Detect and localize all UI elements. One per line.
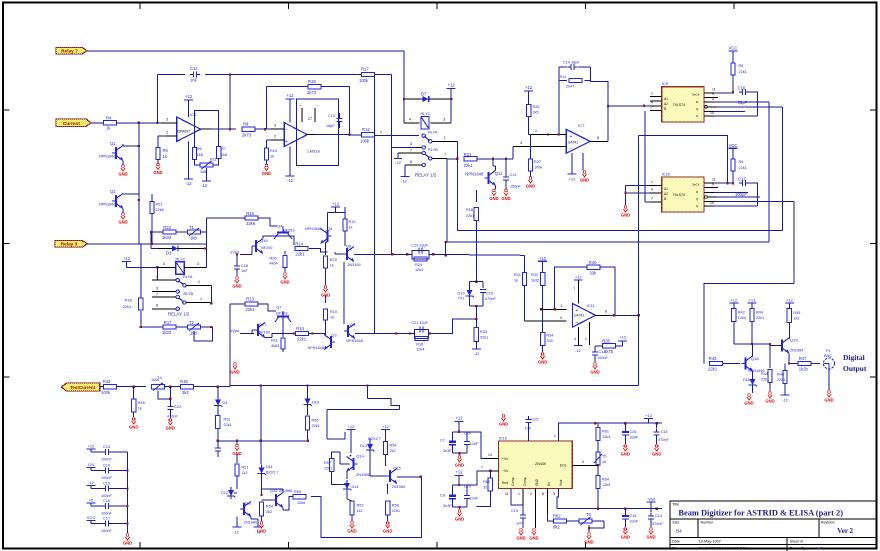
zener D10 cap C15 pair bbox=[458, 282, 497, 307]
power -Vad bbox=[647, 497, 663, 509]
wire relay2 out loop bbox=[194, 326, 213, 341]
svg-text:−: − bbox=[285, 127, 288, 133]
op-amp IC6 bbox=[284, 123, 320, 154]
offset pins lm318 bbox=[299, 104, 319, 122]
svg-text:GND: GND bbox=[824, 398, 833, 403]
resistor R23 bbox=[323, 242, 336, 285]
svg-text:6: 6 bbox=[156, 304, 158, 308]
switch RLYB 2 bbox=[152, 286, 194, 304]
svg-text:4: 4 bbox=[560, 316, 562, 320]
relay coil RLYC 2 bbox=[176, 257, 186, 274]
svg-text:1k: 1k bbox=[330, 264, 334, 268]
svg-text:+12: +12 bbox=[185, 94, 193, 99]
svg-text:UA741: UA741 bbox=[568, 141, 578, 145]
IC U12 ZN439 bbox=[499, 435, 573, 488]
resistor R44 bbox=[750, 309, 764, 346]
ground R27 bbox=[526, 171, 535, 189]
resistor R4 bbox=[104, 116, 117, 131]
wire cluster2 out bbox=[433, 318, 478, 334]
capacitor C16 bbox=[738, 86, 750, 106]
svg-text:UA741: UA741 bbox=[574, 314, 584, 318]
svg-text:C18: C18 bbox=[630, 514, 637, 518]
svg-text:D3: D3 bbox=[166, 250, 172, 255]
branch x367 bbox=[367, 386, 369, 399]
svg-text:R61: R61 bbox=[602, 430, 609, 434]
zener D14 bbox=[343, 472, 358, 493]
svg-text:GND: GND bbox=[765, 399, 774, 404]
svg-text:22k6: 22k6 bbox=[156, 208, 164, 212]
zener D15 bbox=[743, 371, 757, 393]
svg-text:Vout: Vout bbox=[559, 480, 563, 486]
svg-text:VCC: VCC bbox=[729, 143, 738, 148]
svg-text:100pF: 100pF bbox=[735, 192, 747, 197]
svg-text:22k1: 22k1 bbox=[761, 378, 769, 382]
IC U10 74LS74 bbox=[662, 171, 708, 212]
svg-text:2k73: 2k73 bbox=[242, 133, 252, 138]
svg-text:12k4: 12k4 bbox=[602, 435, 610, 439]
svg-text:IC7: IC7 bbox=[578, 123, 585, 128]
label Digital Output bbox=[843, 353, 867, 373]
wire group2 to pin2 bbox=[467, 466, 498, 486]
power VCC ic10 bbox=[729, 143, 738, 159]
wire C16 right bbox=[749, 92, 758, 116]
svg-text:B: B bbox=[664, 197, 666, 201]
capacitor C14 bank bbox=[87, 462, 128, 480]
svg-text:100k: 100k bbox=[101, 390, 111, 395]
svg-text:TestCurrent: TestCurrent bbox=[70, 385, 96, 390]
svg-text:1k2: 1k2 bbox=[357, 509, 363, 513]
svg-text:+: + bbox=[576, 308, 579, 314]
svg-text:C22: C22 bbox=[174, 405, 181, 409]
svg-text:6: 6 bbox=[410, 160, 412, 164]
svg-text:2k47: 2k47 bbox=[566, 85, 574, 89]
svg-text:RLYB: RLYB bbox=[428, 148, 438, 152]
wire q14 base bbox=[332, 452, 350, 464]
svg-text:GND: GND bbox=[584, 540, 593, 545]
svg-text:BF292: BF292 bbox=[261, 246, 272, 250]
svg-text:GND: GND bbox=[383, 529, 392, 534]
resistor R18b bbox=[123, 244, 144, 327]
svg-text:R45: R45 bbox=[138, 401, 145, 405]
svg-text:End: End bbox=[502, 481, 508, 485]
wire R15 feed bbox=[206, 218, 245, 232]
resistor R44b bbox=[761, 344, 772, 391]
ground c19b gnd pair bbox=[516, 529, 538, 541]
svg-text:P1: P1 bbox=[826, 349, 831, 353]
zener D13 bbox=[360, 437, 381, 453]
svg-text:+: + bbox=[285, 139, 288, 145]
svg-text:33nF: 33nF bbox=[630, 436, 639, 440]
ground adc top bbox=[499, 415, 508, 427]
transistor Q17 bbox=[254, 322, 270, 338]
connector BNC P1 bbox=[824, 349, 835, 369]
svg-text:3: 3 bbox=[553, 492, 555, 496]
svg-text:R44: R44 bbox=[756, 311, 763, 315]
svg-text:4: 4 bbox=[409, 118, 411, 122]
resistor R10 bbox=[264, 148, 277, 160]
svg-text:R16: R16 bbox=[466, 208, 473, 212]
svg-text:12k4: 12k4 bbox=[738, 316, 746, 320]
svg-text:GND: GND bbox=[580, 178, 589, 183]
svg-text:+12: +12 bbox=[575, 275, 583, 280]
resistor R21 bbox=[464, 152, 477, 168]
svg-text:1: 1 bbox=[518, 492, 520, 496]
svg-text:1nF: 1nF bbox=[190, 78, 198, 83]
svg-text:2k5: 2k5 bbox=[533, 111, 539, 115]
svg-text:R26: R26 bbox=[533, 105, 540, 109]
svg-text:BF192: BF192 bbox=[259, 330, 270, 334]
svg-text:1: 1 bbox=[444, 136, 446, 140]
svg-text:1: 1 bbox=[535, 129, 537, 133]
label RELAY 1/2 b bbox=[168, 312, 190, 317]
svg-text:+12: +12 bbox=[525, 85, 533, 90]
svg-text:Output: Output bbox=[843, 364, 867, 373]
wire ic12 top pin bbox=[554, 423, 595, 441]
resistor R16 bbox=[466, 190, 479, 283]
resistor R63 bbox=[477, 471, 493, 507]
svg-text:1k8: 1k8 bbox=[221, 153, 227, 157]
capacitor C25 bbox=[525, 416, 539, 441]
svg-text:22k1: 22k1 bbox=[739, 70, 747, 74]
svg-text:1k: 1k bbox=[138, 407, 142, 411]
resistor R56 bbox=[305, 408, 319, 443]
svg-text:+: + bbox=[570, 134, 573, 140]
svg-text:C13: C13 bbox=[103, 445, 110, 449]
wire R15 to Q4 bbox=[258, 218, 277, 226]
svg-text:1Vpd: 1Vpd bbox=[230, 328, 239, 333]
transistor Q6 bbox=[343, 243, 361, 267]
resistor R64 bbox=[596, 475, 610, 508]
wire 1Vpd in 2 bbox=[230, 328, 254, 334]
svg-text:1: 1 bbox=[554, 434, 556, 438]
power -12 lm318 bbox=[286, 147, 295, 183]
svg-text:R56: R56 bbox=[312, 419, 319, 423]
group1 caps bbox=[440, 416, 479, 455]
svg-text:RLYC: RLYC bbox=[176, 257, 186, 261]
net y385 bbox=[230, 384, 639, 386]
svg-text:NPN1648: NPN1648 bbox=[99, 203, 115, 207]
svg-text:GND: GND bbox=[262, 171, 271, 176]
svg-text:A1: A1 bbox=[664, 97, 668, 101]
zener D11 bbox=[258, 404, 279, 477]
trimmer T4 bbox=[151, 375, 180, 391]
svg-text:22k1: 22k1 bbox=[480, 336, 488, 340]
wire q15 out bbox=[397, 476, 422, 478]
svg-text:-12: -12 bbox=[185, 181, 192, 186]
power +12 relay bbox=[447, 83, 456, 99]
svg-text:R33: R33 bbox=[480, 330, 487, 334]
bus vertical ic10 out bbox=[793, 202, 795, 284]
svg-text:R15: R15 bbox=[330, 310, 337, 314]
svg-text:22k1: 22k1 bbox=[324, 467, 332, 471]
svg-text:Relay 3: Relay 3 bbox=[61, 242, 78, 247]
svg-text:+: + bbox=[299, 104, 301, 108]
transistor Q3 bbox=[308, 333, 338, 350]
svg-text:GND: GND bbox=[621, 213, 630, 218]
svg-text:2N1984: 2N1984 bbox=[392, 485, 405, 489]
wire step B bbox=[327, 410, 400, 439]
svg-text:2k2: 2k2 bbox=[390, 449, 396, 453]
svg-text:470nF: 470nF bbox=[658, 438, 669, 442]
IC9 left pins bbox=[643, 91, 662, 110]
ic12 bottom pin wires bbox=[505, 489, 555, 528]
svg-text:R24: R24 bbox=[163, 225, 171, 230]
resistor R52 bbox=[347, 492, 363, 521]
wire q19 collector bbox=[788, 338, 790, 340]
svg-text:100nF: 100nF bbox=[101, 476, 112, 480]
ground R34 bbox=[538, 353, 547, 365]
resistor R32 bbox=[531, 273, 566, 311]
label RELAY 1/2 bbox=[415, 173, 437, 178]
power +12 r42 bbox=[729, 298, 738, 309]
resistor R35 bbox=[595, 335, 627, 354]
wire pin7 left bbox=[394, 153, 422, 165]
svg-text:C15: C15 bbox=[486, 292, 493, 296]
svg-text:+Vs: +Vs bbox=[502, 457, 508, 461]
power +12 cluster1 bbox=[331, 202, 340, 213]
svg-text:GND: GND bbox=[455, 463, 464, 468]
ground C12 bbox=[501, 182, 510, 201]
resistor R42 bbox=[732, 309, 747, 345]
svg-text:9: 9 bbox=[712, 182, 714, 186]
svg-text:R54: R54 bbox=[390, 444, 397, 448]
zener D4 bbox=[214, 387, 227, 409]
bus vertical ic9 b bbox=[782, 107, 784, 231]
svg-text:C14: C14 bbox=[103, 463, 110, 467]
svg-text:R7: R7 bbox=[221, 147, 226, 151]
svg-text:13-May-1997: 13-May-1997 bbox=[699, 539, 721, 543]
svg-text:33nF: 33nF bbox=[630, 520, 639, 524]
svg-text:−Vs: −Vs bbox=[502, 469, 508, 473]
resistor R61 bbox=[596, 423, 610, 452]
svg-text:GND: GND bbox=[499, 422, 508, 427]
svg-text:GND: GND bbox=[123, 541, 132, 546]
power -12 trimmer bbox=[201, 168, 211, 188]
svg-text:A2: A2 bbox=[664, 102, 668, 106]
svg-text:4: 4 bbox=[582, 460, 584, 464]
svg-text:+12: +12 bbox=[786, 298, 794, 303]
power -12 r46b bbox=[781, 395, 790, 403]
wire 1Vpd in bbox=[230, 246, 252, 255]
resistor R21b bbox=[150, 194, 164, 245]
wire Q9 out bbox=[355, 332, 411, 334]
power +12 r45 bbox=[785, 298, 794, 309]
power +12 comparator bias bbox=[524, 85, 533, 104]
resistor R54 bbox=[383, 442, 396, 467]
svg-text:C13: C13 bbox=[655, 514, 662, 518]
svg-text:C17: C17 bbox=[103, 516, 110, 520]
resistor R43 bbox=[101, 379, 146, 395]
svg-text:3: 3 bbox=[274, 124, 276, 128]
capacitor C13c bbox=[592, 346, 608, 360]
svg-text:100k: 100k bbox=[534, 166, 542, 170]
pin 3 coil2 bbox=[184, 249, 206, 268]
power +12 q15 bbox=[381, 424, 390, 441]
svg-text:C11: C11 bbox=[190, 66, 198, 71]
svg-text:GND: GND bbox=[257, 529, 266, 534]
wire q15 base bbox=[370, 453, 386, 476]
wire ic10 to q18 bbox=[704, 284, 794, 364]
svg-text:1k8: 1k8 bbox=[200, 170, 206, 174]
svg-text:11: 11 bbox=[712, 87, 716, 91]
wire ic12 out pin bbox=[572, 460, 598, 465]
svg-text:32: 32 bbox=[483, 486, 487, 490]
svg-text:C7: C7 bbox=[308, 117, 312, 121]
svg-text:D15: D15 bbox=[743, 378, 750, 382]
node input bus A bbox=[138, 123, 140, 244]
ground R25b bbox=[280, 273, 289, 285]
svg-text:33k: 33k bbox=[590, 271, 598, 276]
svg-text:GND: GND bbox=[529, 536, 538, 541]
wire relay coil right bbox=[450, 99, 452, 123]
svg-text:2k2: 2k2 bbox=[266, 510, 272, 514]
svg-text:22k1: 22k1 bbox=[297, 336, 307, 341]
ic11 bottom pins bbox=[574, 322, 590, 345]
svg-text:VCC: VCC bbox=[87, 515, 96, 520]
ground R52 bbox=[347, 522, 356, 534]
svg-text:1k8: 1k8 bbox=[190, 235, 197, 240]
power -12 q13 e bbox=[251, 517, 263, 535]
group2 caps bbox=[440, 470, 479, 508]
resistor R54b bbox=[259, 477, 273, 522]
svg-text:Revision: Revision bbox=[821, 521, 835, 525]
wire sw1 out 2 bbox=[186, 280, 211, 303]
svg-text:C26: C26 bbox=[630, 430, 637, 434]
svg-text:1k33: 1k33 bbox=[162, 235, 172, 240]
svg-text:2: 2 bbox=[530, 492, 532, 496]
svg-text:ZN439: ZN439 bbox=[535, 462, 546, 466]
svg-text:R57: R57 bbox=[324, 461, 331, 465]
svg-text:7: 7 bbox=[651, 105, 653, 109]
svg-text:-12: -12 bbox=[782, 398, 789, 403]
svg-text:R16: R16 bbox=[416, 343, 423, 347]
resistor R58 bbox=[386, 484, 401, 522]
svg-text:GND: GND bbox=[347, 529, 356, 534]
svg-text:3: 3 bbox=[197, 262, 199, 266]
wire R4 to opamp bbox=[117, 122, 167, 124]
wire Q6 line to R31 bbox=[433, 254, 524, 272]
svg-text:R58: R58 bbox=[392, 504, 399, 508]
pin 3 coil bbox=[431, 118, 452, 124]
pin 2 lm318 bbox=[267, 135, 285, 148]
svg-text:R62: R62 bbox=[553, 514, 561, 519]
svg-text:1k32: 1k32 bbox=[531, 279, 539, 283]
svg-text:+12: +12 bbox=[569, 177, 577, 182]
svg-text:D10: D10 bbox=[458, 292, 465, 296]
resistor R7 bbox=[217, 147, 228, 159]
op-amp IC11 bbox=[572, 303, 595, 327]
svg-text:R27: R27 bbox=[534, 160, 541, 164]
svg-text:Current: Current bbox=[63, 121, 80, 126]
resistor R51b bbox=[235, 454, 249, 489]
svg-text:GND: GND bbox=[535, 478, 539, 486]
svg-text:7: 7 bbox=[200, 298, 202, 302]
svg-text:1k2: 1k2 bbox=[793, 317, 799, 321]
power +12 opamp1 bbox=[184, 94, 193, 117]
svg-text:7: 7 bbox=[651, 197, 653, 201]
resistor R14 bbox=[295, 241, 328, 256]
svg-text:Q7: Q7 bbox=[276, 304, 282, 309]
svg-text:+12: +12 bbox=[332, 202, 340, 207]
svg-text:1: 1 bbox=[156, 275, 158, 279]
wire R8 down bbox=[732, 75, 734, 93]
ground Q2 bbox=[118, 209, 127, 225]
svg-text:1: 1 bbox=[651, 180, 653, 184]
svg-text:74LS74: 74LS74 bbox=[673, 193, 685, 197]
svg-text:1k: 1k bbox=[349, 226, 353, 230]
svg-text:100nF: 100nF bbox=[101, 494, 112, 498]
svg-text:C18: C18 bbox=[241, 264, 248, 268]
svg-text:Q2: Q2 bbox=[110, 189, 116, 194]
svg-text:NPN1648: NPN1648 bbox=[99, 155, 115, 159]
svg-text:1: 1 bbox=[585, 337, 587, 341]
wire bias to plus bbox=[529, 117, 567, 136]
svg-text:T5: T5 bbox=[602, 455, 606, 459]
svg-text:Q3: Q3 bbox=[331, 333, 337, 338]
svg-text:R35: R35 bbox=[602, 339, 610, 344]
wire R9 to stage2 bbox=[255, 128, 271, 130]
power +12 q14 bbox=[347, 424, 356, 453]
svg-text:C12: C12 bbox=[510, 173, 517, 177]
wire Q16 out bbox=[263, 236, 294, 245]
svg-text:R42: R42 bbox=[738, 311, 745, 315]
wire relay coil left bbox=[403, 99, 405, 123]
svg-text:1k: 1k bbox=[514, 279, 518, 283]
wire tc to 1vpd bbox=[229, 304, 231, 387]
svg-text:-12: -12 bbox=[201, 183, 208, 188]
ground c18 bbox=[621, 528, 630, 540]
svg-text:22k1: 22k1 bbox=[295, 252, 305, 257]
svg-text:+12: +12 bbox=[286, 93, 294, 98]
power -12 ic11 bbox=[574, 346, 583, 354]
svg-text:R9: R9 bbox=[243, 122, 249, 127]
svg-text:R47: R47 bbox=[799, 356, 807, 361]
svg-text:RLYA: RLYA bbox=[428, 130, 438, 134]
svg-text:1nF: 1nF bbox=[516, 522, 523, 526]
vertical x344 down bbox=[343, 262, 345, 324]
svg-text:GND: GND bbox=[118, 172, 127, 177]
power -12 opamp1 bbox=[184, 141, 193, 186]
IC U9 74LS74 bbox=[662, 81, 708, 122]
trimmer T6 loop bbox=[588, 521, 604, 532]
svg-text:GND: GND bbox=[621, 452, 630, 457]
IC9 right pin wires bbox=[704, 87, 783, 116]
wire cascade ic9 ic10 bbox=[639, 111, 729, 202]
trimmer T5 vertical bbox=[594, 452, 606, 475]
resistor R15 bbox=[245, 211, 258, 226]
power +12 ic11 bbox=[573, 275, 582, 304]
svg-text:RLYC: RLYC bbox=[421, 112, 431, 116]
svg-text:D7: D7 bbox=[421, 92, 427, 97]
svg-text:-Vad: -Vad bbox=[647, 497, 655, 502]
branch x260 bbox=[260, 386, 262, 405]
wire feedback top bbox=[158, 73, 362, 75]
svg-text:File: File bbox=[672, 547, 678, 551]
svg-text:2k2: 2k2 bbox=[182, 390, 189, 395]
svg-text:C13: C13 bbox=[328, 114, 335, 118]
resistor R46b bbox=[777, 364, 787, 396]
svg-text:RELAY 1/2: RELAY 1/2 bbox=[415, 173, 437, 178]
svg-text:R26: R26 bbox=[270, 257, 277, 261]
svg-text:R6: R6 bbox=[197, 147, 202, 151]
wire bus x151 bbox=[151, 232, 158, 249]
svg-text:12k4: 12k4 bbox=[415, 268, 423, 272]
svg-text:C25: C25 bbox=[532, 418, 539, 422]
svg-text:5: 5 bbox=[712, 97, 714, 101]
svg-text:100k: 100k bbox=[360, 138, 370, 143]
ground mid cluster bbox=[321, 286, 330, 298]
svg-text:+12: +12 bbox=[123, 256, 131, 261]
